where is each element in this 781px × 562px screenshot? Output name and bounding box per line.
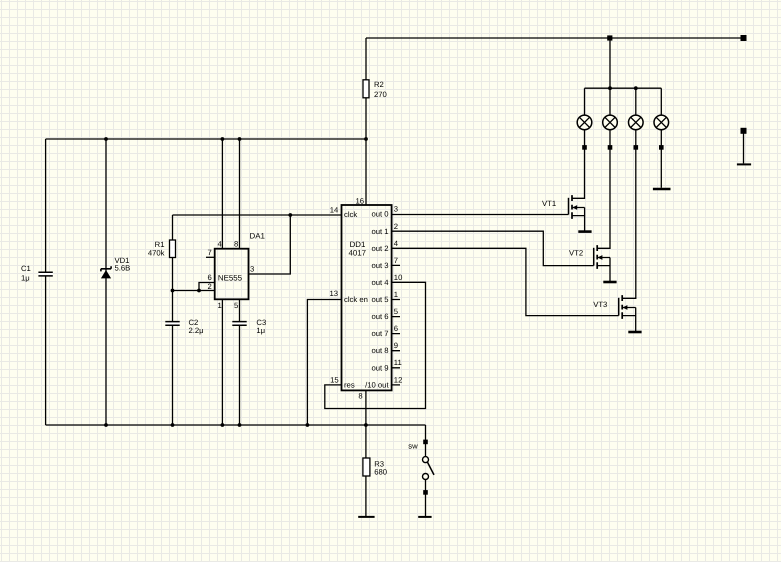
svg-text:8: 8 [234, 240, 238, 249]
svg-text:VT1: VT1 [542, 199, 556, 208]
svg-text:NE555: NE555 [218, 273, 243, 282]
svg-text:5.6В: 5.6В [115, 264, 131, 273]
svg-text:1: 1 [394, 290, 398, 299]
svg-text:2: 2 [208, 282, 212, 291]
svg-text:13: 13 [329, 289, 338, 298]
svg-text:6: 6 [394, 324, 398, 333]
svg-text:2: 2 [394, 222, 398, 231]
svg-text:470k: 470k [148, 249, 165, 258]
svg-text:270: 270 [374, 90, 387, 99]
svg-text:R2: R2 [374, 80, 384, 89]
svg-text:out 5: out 5 [371, 295, 388, 304]
svg-text:15: 15 [330, 375, 339, 384]
svg-text:out 1: out 1 [371, 227, 388, 236]
svg-text:out 7: out 7 [371, 329, 388, 338]
svg-text:clck: clck [344, 210, 357, 219]
svg-text:1μ: 1μ [256, 326, 265, 335]
svg-text:clck en: clck en [344, 295, 368, 304]
svg-text:9: 9 [394, 341, 398, 350]
svg-text:4: 4 [218, 240, 223, 249]
svg-text:16: 16 [355, 197, 364, 206]
svg-text:8: 8 [358, 392, 362, 401]
svg-text:10: 10 [394, 273, 403, 282]
svg-text:11: 11 [394, 358, 402, 367]
svg-text:12: 12 [394, 375, 403, 384]
svg-text:sw: sw [408, 442, 418, 451]
svg-text:7: 7 [394, 256, 398, 265]
svg-text:3: 3 [394, 205, 398, 214]
svg-text:out 4: out 4 [371, 278, 389, 287]
svg-text:out 3: out 3 [371, 261, 388, 270]
svg-text:1: 1 [218, 301, 222, 310]
svg-text:out 8: out 8 [371, 346, 388, 355]
svg-text:C1: C1 [21, 264, 31, 273]
svg-text:7: 7 [208, 248, 212, 257]
svg-text:3: 3 [250, 264, 254, 273]
svg-text:out 0: out 0 [371, 210, 388, 219]
svg-text:5: 5 [394, 307, 398, 316]
svg-text:680: 680 [374, 468, 387, 477]
svg-text:14: 14 [330, 205, 339, 214]
svg-text:VT3: VT3 [593, 300, 607, 309]
svg-text:5: 5 [234, 301, 238, 310]
svg-text:VT2: VT2 [569, 249, 583, 258]
svg-text:out 2: out 2 [371, 244, 388, 253]
svg-text:4017: 4017 [349, 248, 367, 257]
svg-text:res: res [344, 380, 355, 389]
svg-text:out 6: out 6 [371, 312, 388, 321]
svg-text:4: 4 [394, 239, 399, 248]
svg-text:out 9: out 9 [371, 364, 388, 373]
svg-text:/10 out: /10 out [365, 381, 389, 390]
svg-text:1μ: 1μ [21, 274, 30, 283]
svg-text:2.2μ: 2.2μ [189, 326, 204, 335]
svg-text:DA1: DA1 [250, 231, 265, 240]
